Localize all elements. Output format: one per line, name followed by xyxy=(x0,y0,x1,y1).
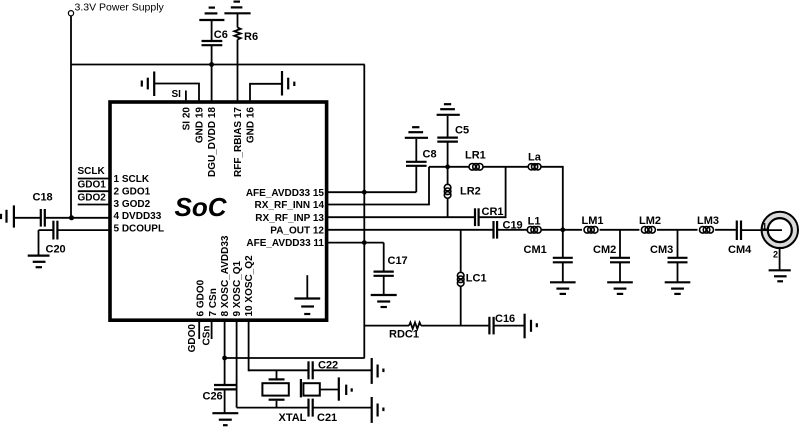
svg-text:CM4: CM4 xyxy=(728,244,752,256)
svg-text:SI: SI xyxy=(172,89,182,100)
wire supply vertical xyxy=(70,16,72,218)
capacitor C17 xyxy=(374,243,408,295)
ground at C21 xyxy=(372,397,384,423)
svg-text:CM1: CM1 xyxy=(524,244,547,256)
svg-text:CSn: CSn xyxy=(202,326,213,346)
wire L1 to CM1 node xyxy=(542,229,583,231)
svg-text:C6: C6 xyxy=(214,29,228,41)
svg-text:L1: L1 xyxy=(528,215,541,227)
svg-text:1: 1 xyxy=(762,222,767,232)
node junction C5/LR2/LR1 xyxy=(445,164,450,169)
svg-text:LM3: LM3 xyxy=(697,215,719,227)
node junction CM1 xyxy=(560,227,565,232)
ground at C20 xyxy=(28,256,50,268)
svg-text:1 SCLK: 1 SCLK xyxy=(114,174,150,185)
svg-text:RX_RF_INN 14: RX_RF_INN 14 xyxy=(255,200,325,211)
capacitor C5 xyxy=(437,116,469,167)
ground at C16 xyxy=(525,314,537,339)
svg-text:6 GDO0: 6 GDO0 xyxy=(196,279,207,316)
svg-text:GND 19: GND 19 xyxy=(195,107,206,144)
capacitor C18 xyxy=(14,192,110,227)
node junction pin8/AVDD xyxy=(222,356,227,361)
wire RDC1 to C16 xyxy=(421,325,488,327)
capacitor C8 xyxy=(406,139,437,192)
wire CR1 to LR1 node xyxy=(479,167,506,217)
ground above C8 xyxy=(405,127,428,138)
wire RDC line left xyxy=(364,325,409,327)
ground above C6 xyxy=(199,8,224,20)
capacitor CM2 xyxy=(593,230,630,282)
ground at CM3 xyxy=(665,282,691,294)
ground at antenna xyxy=(769,270,791,281)
svg-text:7 CSn: 7 CSn xyxy=(208,288,219,316)
capacitor CR1 xyxy=(475,206,504,226)
node junction C6/bus xyxy=(209,62,214,67)
inductor LM1 xyxy=(582,215,604,233)
inductor L1 xyxy=(527,215,541,233)
capacitor C19 xyxy=(494,220,523,239)
wire pin 8 XOSC_AVDD33 xyxy=(224,321,226,385)
wire LM1 to CM2 xyxy=(600,229,640,231)
capacitor CM3 xyxy=(650,230,688,282)
wire RX node line xyxy=(429,166,469,168)
wire La to CM1 node xyxy=(541,167,563,230)
svg-text:2 GDO1: 2 GDO1 xyxy=(114,187,151,198)
capacitor CM1 xyxy=(524,230,573,282)
wire XTAL top line xyxy=(249,369,308,371)
svg-text:3.3V Power Supply: 3.3V Power Supply xyxy=(75,2,165,14)
ground above R6 xyxy=(224,2,250,14)
wire pin 6 stub xyxy=(198,321,200,340)
inductor LM2 xyxy=(639,215,661,233)
svg-text:GDO0: GDO0 xyxy=(187,324,198,353)
svg-text:LR1: LR1 xyxy=(465,150,486,162)
svg-text:LM2: LM2 xyxy=(639,215,661,227)
ground at C22 xyxy=(372,358,384,384)
ground at C26 xyxy=(212,413,238,425)
wire pin 12 PA_OUT xyxy=(328,229,493,231)
wire pin 3 stub xyxy=(78,204,110,206)
resistor RDC1 xyxy=(389,322,421,340)
op-amp U1 SoC chip body xyxy=(110,102,327,320)
capacitor CM4 xyxy=(728,221,752,257)
wire LM2 to CM3 xyxy=(657,229,698,231)
resistor R6 xyxy=(234,13,258,101)
svg-text:AFE_AVDD33 11: AFE_AVDD33 11 xyxy=(246,238,324,249)
ground at CM2 xyxy=(607,282,633,294)
wire pin 14 RX_RF_INN xyxy=(328,167,429,205)
antenna connector xyxy=(741,212,798,271)
ground at C17 xyxy=(371,295,397,307)
wire pin 11 AFE_AVDD33 xyxy=(328,242,384,244)
svg-text:RDC1: RDC1 xyxy=(389,328,419,340)
svg-text:SI 20: SI 20 xyxy=(182,107,193,131)
wire C19 to L1 xyxy=(497,229,528,231)
node SI stub pin 20 xyxy=(172,89,186,102)
capacitor C21 xyxy=(309,399,372,424)
svg-text:CR1: CR1 xyxy=(482,206,504,218)
wire LR1 to La xyxy=(483,166,529,168)
node junction supply/pin4 xyxy=(69,215,74,220)
svg-text:SoC: SoC xyxy=(175,192,228,222)
capacitor C26 xyxy=(203,385,237,413)
svg-text:4 DVDD33: 4 DVDD33 xyxy=(114,211,162,222)
svg-text:RX_RF_INP 13: RX_RF_INP 13 xyxy=(255,213,324,224)
svg-text:LM1: LM1 xyxy=(582,215,604,227)
node junction pin15/AVDD drop xyxy=(362,190,367,195)
svg-text:XTAL: XTAL xyxy=(279,412,307,424)
capacitor C20 xyxy=(39,221,111,256)
svg-text:GDO1: GDO1 xyxy=(78,179,107,190)
svg-text:3 GOD2: 3 GOD2 xyxy=(114,199,151,210)
svg-text:CM2: CM2 xyxy=(593,244,616,256)
svg-text:C8: C8 xyxy=(423,149,437,161)
svg-text:C20: C20 xyxy=(46,243,66,255)
svg-text:GND 16: GND 16 xyxy=(246,107,257,144)
wire top supply bus xyxy=(71,64,365,66)
inductor LC1 xyxy=(457,230,486,326)
svg-text:C18: C18 xyxy=(33,192,53,204)
inductor LR1 xyxy=(465,150,486,171)
svg-text:SCLK: SCLK xyxy=(78,166,106,177)
svg-text:10 XOSC_Q2: 10 XOSC_Q2 xyxy=(244,255,255,317)
wire AVDD vertical drop xyxy=(363,65,365,358)
svg-text:C17: C17 xyxy=(388,255,408,267)
inductor La xyxy=(528,152,542,170)
node junction pin11/AVDD drop xyxy=(362,240,367,245)
svg-text:8 XOSC_AVDD33: 8 XOSC_AVDD33 xyxy=(220,235,231,316)
svg-text:2: 2 xyxy=(773,250,778,260)
wire pin 9 XOSC_Q1 xyxy=(236,321,238,408)
svg-text:La: La xyxy=(528,152,542,164)
svg-text:RFF_RBIAS 17: RFF_RBIAS 17 xyxy=(233,107,244,177)
wire pin 16 GND xyxy=(250,84,282,102)
wire pin 10 XOSC_Q2 xyxy=(249,321,250,371)
ground at pin 16 (GND) xyxy=(282,71,294,96)
ground at pin 19 (GND) xyxy=(142,72,154,97)
svg-text:5 DCOUPL: 5 DCOUPL xyxy=(114,224,165,235)
capacitor C22 xyxy=(309,360,372,380)
inductor LM3 xyxy=(697,215,719,233)
wire pin 7 stub xyxy=(211,321,213,340)
svg-text:C21: C21 xyxy=(317,412,337,424)
capacitor C6 xyxy=(202,20,228,102)
ground at crystal case xyxy=(339,377,352,400)
wire XTAL bottom line xyxy=(237,407,308,409)
svg-text:AFE_AVDD33 15: AFE_AVDD33 15 xyxy=(246,188,325,199)
wire pin 1 stub xyxy=(78,178,110,180)
svg-text:LC1: LC1 xyxy=(466,273,487,285)
svg-text:PA_OUT 12: PA_OUT 12 xyxy=(270,225,324,236)
svg-text:C26: C26 xyxy=(203,391,223,403)
svg-text:GDO2: GDO2 xyxy=(78,192,107,203)
wire pin8 to AVDD drop xyxy=(225,357,365,359)
crystal XTAL xyxy=(262,370,306,424)
ground at C18 xyxy=(1,205,14,227)
inductor LR2 xyxy=(444,167,480,217)
svg-text:LR2: LR2 xyxy=(460,186,481,198)
crystal case xyxy=(301,379,339,397)
ground at CM1 xyxy=(550,282,576,294)
capacitor C16 xyxy=(489,313,524,334)
svg-text:R6: R6 xyxy=(244,31,258,43)
wire LM3 to CM4 xyxy=(715,229,736,231)
wire pin 2 stub xyxy=(78,190,110,192)
wire pin 15 AFE_AVDD33 xyxy=(328,191,416,193)
ground inside chip xyxy=(294,275,320,314)
svg-text:C5: C5 xyxy=(455,125,469,137)
svg-text:DGU_DVDD 18: DGU_DVDD 18 xyxy=(207,107,218,177)
node 3.3V Power Supply terminal xyxy=(68,2,164,16)
svg-text:CM3: CM3 xyxy=(650,244,673,256)
wire pin 19 GND xyxy=(154,84,199,102)
wire pin 13 RX_RF_INP xyxy=(328,216,474,218)
svg-text:9 XOSC_Q1: 9 XOSC_Q1 xyxy=(232,260,243,316)
svg-text:C16: C16 xyxy=(495,313,515,325)
ground above C5 xyxy=(437,104,460,115)
